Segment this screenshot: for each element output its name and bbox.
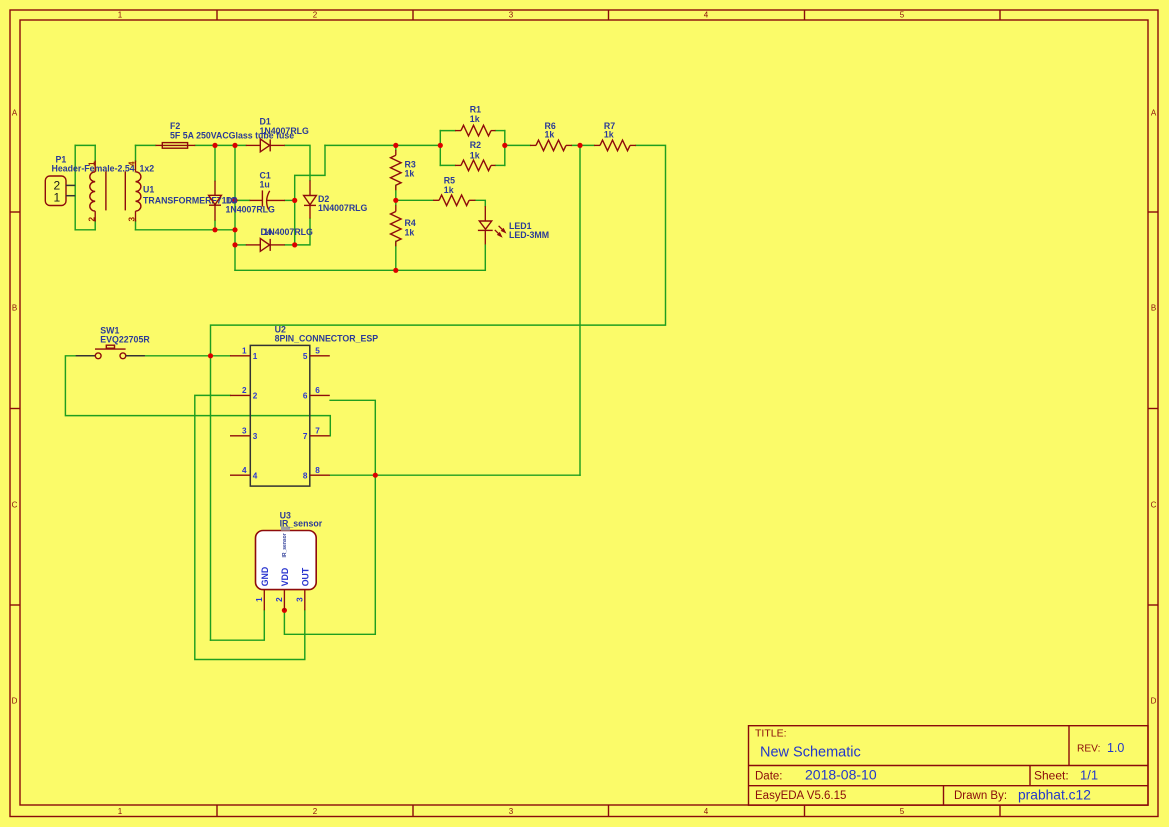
junction [282,608,287,613]
wire: D1 cathode to D2 anode [285,145,310,180]
resistor R5 (horizontal) [433,195,475,206]
svg-text:REV:: REV: [1077,744,1100,755]
svg-text:2018-08-10: 2018-08-10 [805,767,877,783]
svg-text:A: A [1151,109,1157,118]
junction [232,198,237,203]
svg-text:1k: 1k [444,185,454,195]
wire: R5 left [396,199,433,201]
svg-text:C: C [1151,501,1157,510]
wire: GND row to U3 pin1 [211,610,265,640]
wire: U2 pin8 row [330,474,580,476]
pin 3 of U2 [230,426,258,441]
svg-text:2: 2 [313,807,318,816]
wire: D3 bottom [214,221,216,230]
svg-text:2: 2 [242,386,247,395]
wire [135,221,137,230]
resistor R7 (horizontal) [594,140,636,151]
wire: pin6 area wire to VDD [284,400,375,634]
pin 2 of U2 [230,386,258,401]
svg-text:4: 4 [704,807,709,816]
svg-text:1N4007RLG: 1N4007RLG [264,227,314,237]
wire: transformer bottom rail [136,229,236,231]
svg-text:8: 8 [315,466,320,475]
svg-text:1: 1 [242,346,247,355]
junction [393,143,398,148]
wire: x235 vertical AC2 [234,145,236,270]
svg-text:D: D [1151,697,1157,706]
svg-text:7: 7 [315,426,320,435]
wire [496,164,505,166]
svg-text:6: 6 [303,392,308,401]
junction [232,227,237,232]
svg-text:1/1: 1/1 [1080,768,1098,783]
wire [75,144,95,146]
svg-text:3: 3 [296,597,305,602]
svg-text:1: 1 [87,161,96,166]
wire: D4 right [285,244,295,246]
svg-text:1: 1 [118,807,123,816]
resistor R3 (vertical) [391,150,402,190]
wire: D4 left [235,244,246,246]
pin 2 of U3 (VDD) [275,568,290,611]
diode D3 (vertical at x=215) [209,181,222,221]
diode D4 (horizontal at y=244.4) [246,239,285,252]
wire [295,145,325,200]
svg-text:OUT: OUT [300,567,310,586]
svg-text:5: 5 [303,352,308,361]
wire: R4 bottom [395,241,397,270]
svg-text:IR_sensor: IR_sensor [280,519,323,529]
pin 5 of U2 [303,346,330,361]
wire: R1R2 right vertical [504,131,506,166]
svg-text:A: A [12,109,18,118]
connector P1 [45,176,75,206]
svg-text:3: 3 [127,217,136,222]
junction [393,268,398,273]
wire: P1 to transformer primary loop [74,145,76,229]
svg-text:5: 5 [900,807,905,816]
svg-text:3: 3 [509,11,514,20]
svg-text:IR_sensor: IR_sensor [282,533,288,557]
svg-text:Date:: Date: [755,771,783,783]
svg-text:B: B [1151,304,1156,313]
svg-text:prabhat.c12: prabhat.c12 [1018,787,1091,802]
svg-text:4: 4 [704,11,709,20]
svg-text:6: 6 [315,386,320,395]
svg-text:1k: 1k [405,227,415,237]
fuse F2 [156,143,196,149]
svg-text:2: 2 [313,11,318,20]
junction [292,242,297,247]
diode D1 [246,139,285,152]
junction [232,242,237,247]
junction [393,198,398,203]
diode D2 (vertical at x=310) [304,180,317,218]
wire: node R6R7 down to pin8 row [579,145,581,475]
pin 7 of U2 [303,426,330,441]
svg-text:C: C [12,501,18,510]
connector U2 8PIN_CONNECTOR_ESP [250,345,309,486]
pin 3 of U3 (OUT) [296,567,311,610]
svg-text:8: 8 [303,472,308,481]
wire: R1R2 block to R6 [505,144,530,146]
svg-text:1N4007RLG: 1N4007RLG [260,126,310,136]
svg-text:2: 2 [275,597,284,602]
junction [232,143,237,148]
junction [292,198,297,203]
svg-text:2: 2 [87,217,96,222]
junction [502,143,507,148]
wire [136,144,156,146]
svg-text:Drawn By:: Drawn By: [954,790,1007,802]
junction [208,353,213,358]
svg-text:2: 2 [253,392,258,401]
svg-text:D: D [12,697,18,706]
svg-text:7: 7 [303,432,308,441]
svg-text:3: 3 [509,807,514,816]
svg-text:TITLE:: TITLE: [755,727,787,739]
svg-text:3: 3 [242,426,247,435]
resistor R1 (horizontal) [455,125,496,136]
resistor R2 (horizontal) [455,160,496,171]
wire: R2 leads [440,164,455,166]
junction [212,143,217,148]
svg-text:4: 4 [242,466,247,475]
wire: R5 right to LED top [475,200,485,206]
svg-text:1: 1 [118,11,123,20]
svg-text:1: 1 [253,352,258,361]
wire: node between C1 right and D4 right [294,200,296,244]
svg-text:F2: F2 [170,121,180,131]
svg-text:LED-3MM: LED-3MM [509,230,549,240]
svg-text:1.0: 1.0 [1107,741,1124,755]
transformer U1 [87,161,141,222]
svg-text:3: 3 [253,432,258,441]
wire: R3 bottom to node [395,185,397,205]
svg-text:Sheet:: Sheet: [1034,769,1069,783]
wire [75,229,95,231]
svg-text:1k: 1k [545,130,555,140]
wire: fuse to D1 anode, AC top rail [195,144,246,146]
wire: R6 to R7 node [572,144,594,146]
svg-text:1: 1 [54,191,61,205]
wire [496,130,505,132]
svg-text:Header-Female-2.54_1x2: Header-Female-2.54_1x2 [52,163,155,173]
junction [373,473,378,478]
capacitor C1 [250,190,286,209]
svg-text:1k: 1k [405,169,415,179]
svg-text:B: B [12,304,17,313]
resistor R4 (vertical) [391,205,402,246]
pushbutton SW1 [76,345,145,358]
wire: R1R2 left vertical [439,131,441,166]
svg-text:1N4007RLG: 1N4007RLG [318,203,368,213]
svg-text:1k: 1k [604,130,614,140]
wire: C1 left [235,199,250,201]
svg-text:New Schematic: New Schematic [760,745,861,761]
pin 8 of U2 [303,466,330,481]
svg-text:1k: 1k [470,150,480,160]
wire: U2 pin2 to U3 pin3 (OUT) [195,395,305,659]
svg-text:4: 4 [127,161,136,166]
wire [94,221,96,230]
wire: bottom DC- rail [235,269,485,271]
svg-text:1k: 1k [470,114,480,124]
svg-text:GND: GND [260,567,270,587]
pin 1 of U3 (GND) [255,567,270,611]
wire: D3 branch vertical top [214,145,216,180]
wire: LED bottom [484,245,486,270]
wire: transformer secondary to fuse [135,145,137,161]
svg-text:8PIN_CONNECTOR_ESP: 8PIN_CONNECTOR_ESP [275,333,379,343]
wire: R3 top [395,145,397,150]
IR sensor U3 [256,527,317,590]
LED LED1 [478,206,506,244]
resistor R6 (horizontal) [530,140,572,151]
svg-text:EVQ22705R: EVQ22705R [100,335,150,345]
wire: junction at pin1 down to GND row [210,356,212,640]
wire: DC+ rail from corner to R7 [325,144,440,146]
wire: D2 cathode to D4 row [295,219,310,245]
svg-text:VDD: VDD [280,568,290,587]
svg-text:1: 1 [255,597,264,602]
svg-text:U1: U1 [143,185,154,195]
svg-text:TRANSFORMERF7110: TRANSFORMERF7110 [143,196,236,206]
svg-text:4: 4 [253,472,258,481]
svg-text:1u: 1u [260,179,270,189]
pin 1 of U2 [230,346,258,361]
wire: C1 right [285,199,295,201]
pin 6 of U2 [303,386,330,401]
pin 4 of U2 [230,466,258,481]
wire [94,145,96,161]
svg-text:5: 5 [900,11,905,20]
wire: SW1 left lead down and across to pin7 [65,356,330,436]
junction [212,227,217,232]
wire: R7 right, down to U2 row [211,145,666,355]
wire: SW1 right to U2 pin1 [145,355,230,357]
svg-text:5: 5 [315,346,320,355]
svg-text:EasyEDA V5.6.15: EasyEDA V5.6.15 [755,790,846,802]
junction [577,143,582,148]
wire: R1 leads [440,130,455,132]
svg-text:R2: R2 [470,140,481,150]
junction [438,143,443,148]
